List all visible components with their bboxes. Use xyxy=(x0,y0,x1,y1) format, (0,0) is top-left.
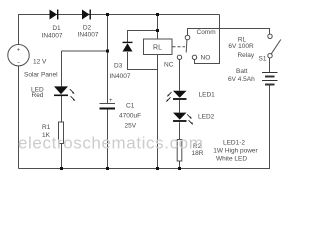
svg-text:C1: C1 xyxy=(126,103,135,110)
wire solar panel bottom lead xyxy=(18,66,20,169)
svg-text:12 V: 12 V xyxy=(33,59,47,66)
svg-text:6V 4.5Ah: 6V 4.5Ah xyxy=(228,76,255,83)
svg-text:Batt: Batt xyxy=(236,68,248,75)
wire LED1 to LED2 xyxy=(179,100,181,113)
svg-text:+: + xyxy=(17,48,21,54)
svg-text:IN4007: IN4007 xyxy=(78,32,99,39)
wire NC to LED chain xyxy=(179,60,181,91)
svg-text:+: + xyxy=(109,98,113,104)
svg-text:IN4007: IN4007 xyxy=(42,33,63,40)
node rail-RL xyxy=(156,13,159,16)
wire RL coil bottom to rail xyxy=(157,55,159,169)
svg-text:LED2: LED2 xyxy=(198,114,215,121)
svg-text:NC: NC xyxy=(164,62,174,69)
wire C1 branch lower xyxy=(107,110,109,169)
svg-text:6V 100R: 6V 100R xyxy=(228,43,254,50)
svg-text:NO: NO xyxy=(201,55,211,62)
wire top rail xyxy=(18,14,220,16)
node bottom-R1 xyxy=(60,167,63,170)
svg-text:D1: D1 xyxy=(52,25,61,32)
resistor R2 xyxy=(177,140,182,162)
resistor R1 xyxy=(59,122,64,144)
diode D1 xyxy=(50,10,58,20)
node rail-C1 xyxy=(106,13,109,16)
LED red xyxy=(54,86,75,101)
svg-text:IN4007: IN4007 xyxy=(110,73,131,80)
wire solar panel top lead xyxy=(18,15,20,45)
wire comm to S1 xyxy=(188,29,270,36)
svg-text:S1: S1 xyxy=(259,56,267,63)
svg-text:Solar Panel: Solar Panel xyxy=(24,72,58,79)
node bottom-RL xyxy=(156,167,159,170)
diode D2 xyxy=(82,10,90,20)
svg-text:D3: D3 xyxy=(114,63,123,70)
node LEDred-C1 xyxy=(106,50,109,53)
svg-text:LED1: LED1 xyxy=(199,92,216,99)
wire LED2 to R2 xyxy=(179,122,181,139)
wire LED red vertical upper xyxy=(61,51,63,86)
wire D3 cathode link xyxy=(128,31,158,43)
diode D3 xyxy=(123,42,133,51)
svg-text:25V: 25V xyxy=(125,123,137,130)
node bottom-R2 xyxy=(178,167,181,170)
LED1 xyxy=(166,91,186,102)
LED2 xyxy=(173,113,193,125)
battery Batt xyxy=(262,73,278,85)
switch S1 top contact xyxy=(268,34,272,38)
relay switch arm xyxy=(185,40,188,53)
svg-text:4700uF: 4700uF xyxy=(119,113,141,120)
relay contact NO xyxy=(192,55,196,59)
svg-text:1W High power: 1W High power xyxy=(213,148,258,155)
switch S1 arm xyxy=(271,40,281,54)
wire battery to bottom rail xyxy=(269,85,271,169)
wire bottom rail xyxy=(19,168,271,170)
wire C1 branch upper xyxy=(107,15,109,104)
wire LED red branch horizontal xyxy=(62,50,108,52)
relay contact Comm xyxy=(185,35,190,40)
svg-text:LED1-2: LED1-2 xyxy=(223,140,245,147)
svg-text:White LED: White LED xyxy=(216,156,247,163)
svg-text:electroschematics.com: electroschematics.com xyxy=(18,134,204,153)
switch S1 bottom contact xyxy=(268,54,272,58)
svg-text:D2: D2 xyxy=(83,25,92,32)
solar panel SP1 xyxy=(8,45,29,67)
relay contact NC xyxy=(177,55,181,59)
wire right drop to NO loop xyxy=(195,15,220,64)
capacitor C1 xyxy=(100,98,116,109)
relay link dashes xyxy=(173,46,186,48)
svg-text:Comm: Comm xyxy=(197,29,216,36)
wire R2 to bottom rail xyxy=(179,161,181,169)
svg-text:RL: RL xyxy=(153,45,162,52)
svg-text:Red: Red xyxy=(32,92,44,99)
wire RL branch from rail xyxy=(157,15,159,40)
wire D3 anode link xyxy=(128,52,158,70)
wire S1 to battery xyxy=(269,58,271,73)
relay coil RL box xyxy=(144,39,173,55)
junction dots xyxy=(60,13,181,170)
svg-text:R1: R1 xyxy=(42,124,51,131)
node RL-D3 xyxy=(156,29,159,32)
wire LED red to R1 xyxy=(61,96,63,122)
svg-text:Relay: Relay xyxy=(237,52,254,59)
wire R1 to bottom rail xyxy=(61,144,63,169)
node bottom-C1 xyxy=(106,167,109,170)
